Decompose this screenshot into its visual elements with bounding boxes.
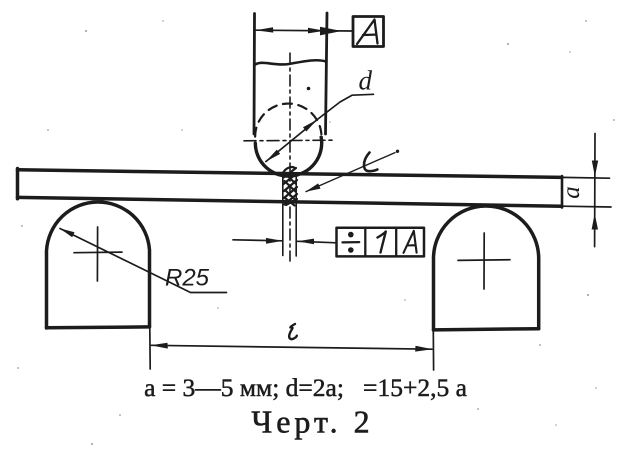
weld seam right edge (295, 174, 297, 257)
tolerance value 1 (378, 232, 386, 253)
punch right side (326, 13, 328, 134)
vertical centerline (289, 53, 291, 261)
left support cross vertical (96, 227, 98, 281)
symmetry symbol lower dot (348, 247, 354, 253)
symmetry symbol bar (343, 241, 360, 244)
d leader (317, 94, 373, 119)
datum letter A (frame) (404, 231, 417, 253)
plate bottom extension line (562, 205, 611, 208)
right support dome (433, 206, 538, 330)
thickness upper arrowhead (592, 161, 598, 177)
punch left side (253, 14, 256, 135)
right support bottom (434, 329, 539, 330)
datum letter A (top) (357, 20, 378, 45)
diameter arrowhead lower-left (266, 150, 280, 162)
punch tip circle dashed upper arc (255, 104, 321, 137)
thickness dimension line (594, 134, 596, 247)
plate top extension line (562, 176, 610, 179)
left support dome (47, 202, 150, 328)
leader to tolerance frame (298, 241, 337, 243)
speck dot near punch (307, 87, 311, 91)
span dimension right extension line (432, 330, 434, 370)
svg-text:а = 3—5 мм; d=2а; =15+2,5 а: а = 3—5 мм; d=2а; =15+2,5 а (144, 373, 467, 402)
weld seam scribble (284, 167, 298, 205)
R25 arrowhead (60, 228, 75, 237)
span right arrowhead (415, 346, 432, 352)
top dimension left arrowhead (256, 27, 274, 32)
datum frame A (top) (353, 17, 384, 47)
svg-text:d: d (359, 66, 373, 96)
diameter arrow line (266, 120, 318, 162)
tolerance frame divider 1 (364, 228, 366, 257)
weld width dim left line (233, 240, 282, 241)
diameter arrowhead upper-right (303, 120, 317, 132)
svg-text:a: a (558, 186, 585, 199)
span label script l (289, 324, 297, 339)
weld leader arrowhead (306, 183, 321, 191)
weld width left arrowhead (266, 238, 283, 244)
weld seam left edge (282, 173, 284, 256)
right support cross vertical (483, 233, 485, 289)
horizontal centerline of circle (244, 139, 334, 142)
R25 leader line (60, 229, 227, 293)
view direction solid arrowhead (320, 27, 342, 36)
span dimension left extension line (149, 328, 151, 370)
span dimension line (151, 345, 432, 349)
tolerance frame divider 2 (395, 228, 397, 257)
svg-text:R25: R25 (165, 265, 210, 292)
top dimension right arrowhead (308, 28, 325, 34)
weld label script l (364, 153, 377, 172)
left support bottom (47, 325, 150, 329)
specimen plate top line (18, 170, 563, 178)
weld leader line (306, 153, 395, 192)
top dimension line (256, 29, 353, 32)
plate left end cap (16, 169, 20, 199)
svg-text:Черт. 2: Черт. 2 (251, 404, 373, 440)
weld leader end dot (396, 150, 399, 153)
plate right end cap (561, 176, 564, 208)
symmetry symbol upper dot (348, 232, 354, 238)
left support cross horizontal (74, 251, 122, 254)
weld width right arrowhead (298, 239, 315, 245)
tolerance frame box (337, 228, 425, 257)
punch break line (wavy top) (255, 60, 327, 65)
specimen plate bottom line (18, 197, 563, 206)
span left arrowhead (151, 343, 168, 349)
punch tip circle solid lower arc (255, 137, 321, 176)
thickness lower arrowhead (592, 214, 598, 230)
right support cross horizontal (458, 259, 510, 262)
